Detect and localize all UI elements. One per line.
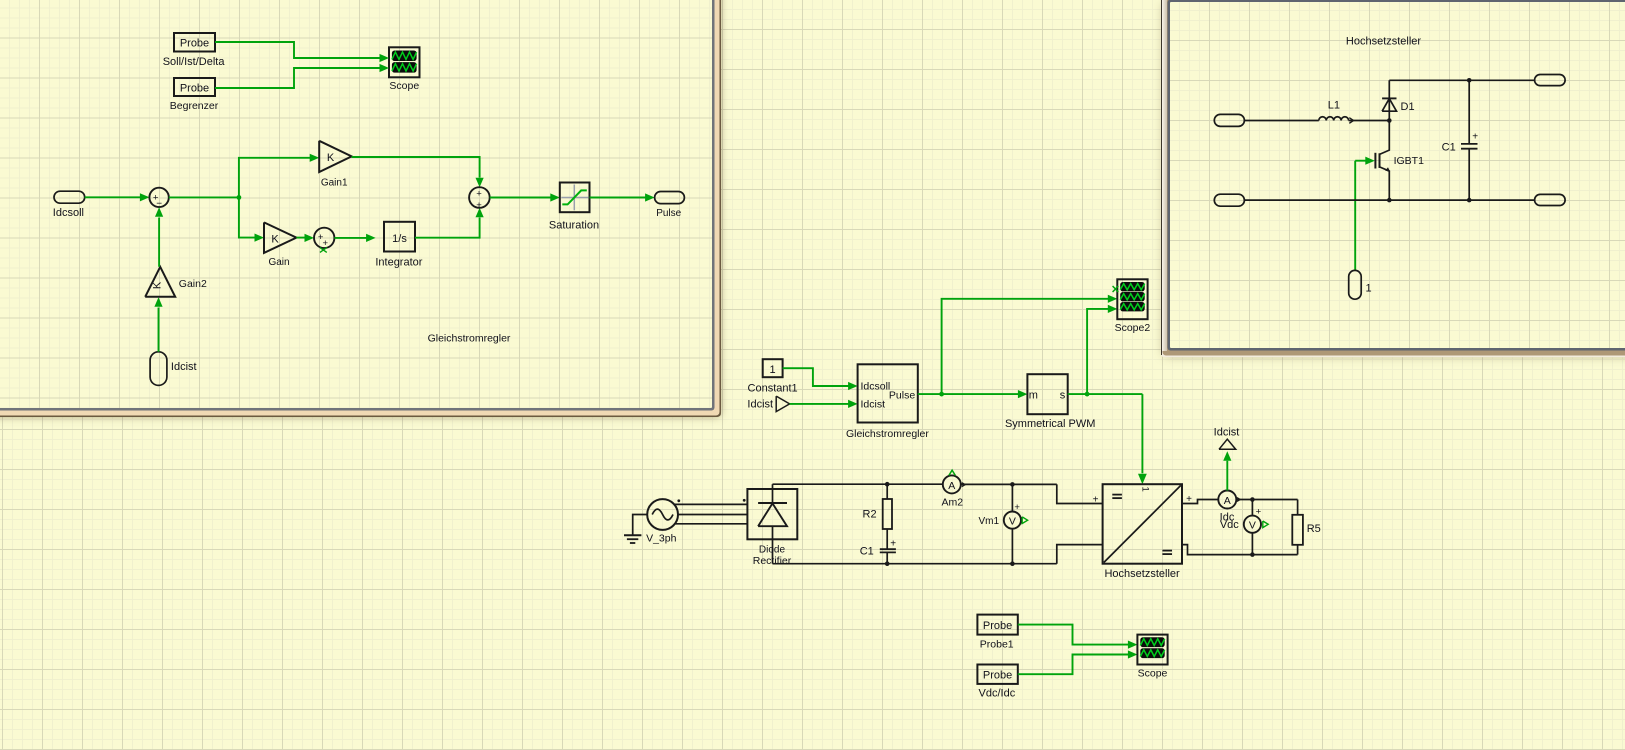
svg-text:+: +	[1472, 132, 1478, 143]
svg-text:Idcist: Idcist	[747, 399, 773, 411]
subsystem block Gleichstromregler	[858, 364, 918, 422]
node junction C1 top	[1467, 78, 1472, 83]
svg-text:D1: D1	[1401, 101, 1415, 113]
wire phase a	[674, 503, 747, 505]
svg-text:1: 1	[1139, 487, 1150, 492]
svg-text:Symmetrical PWM: Symmetrical PWM	[1005, 418, 1095, 430]
wire Probe1 to Scope (main)	[1018, 625, 1129, 645]
sum junction 1 (+/-)	[149, 188, 168, 207]
wire phase b	[678, 514, 747, 516]
svg-text:Rectifier: Rectifier	[753, 555, 792, 567]
wire dc bus top	[773, 483, 943, 485]
wire Saturation to Pulse	[590, 197, 647, 199]
port oval left-bottom	[1214, 194, 1244, 206]
svg-text:Hochsetzsteller: Hochsetzsteller	[1104, 568, 1180, 580]
capacitor C1	[1468, 80, 1470, 143]
phase marker dot rectifier	[743, 499, 746, 502]
wire Gain1 to sum3	[352, 157, 480, 178]
gain block Gain2	[145, 267, 175, 297]
node junction (L1/D1/IGBT)	[1387, 118, 1392, 123]
wire branch down to Gain	[239, 197, 255, 237]
svg-text:Scope: Scope	[389, 80, 419, 92]
svg-text:Idcsoll: Idcsoll	[53, 207, 84, 219]
wire Idcist to Gain2	[158, 308, 160, 352]
node dot pulse branch	[939, 392, 944, 397]
probe block Probe (Soll/Ist/Delta)	[174, 33, 215, 52]
svg-text:Scope2: Scope2	[1115, 322, 1151, 334]
wire branch up to Gain1	[239, 158, 311, 198]
wire L1 to node	[1349, 120, 1390, 122]
resistor R2	[886, 484, 888, 499]
svg-text:Hochsetzsteller: Hochsetzsteller	[1346, 36, 1422, 48]
svg-text:Am2: Am2	[942, 497, 964, 509]
probe block Probe1	[977, 615, 1017, 635]
svg-text:s: s	[1060, 390, 1066, 402]
scope block Scope (main)	[1137, 635, 1167, 665]
svg-text:Idcist: Idcist	[171, 361, 197, 373]
svg-text:Vdc: Vdc	[1220, 519, 1239, 531]
current direction arrow	[1349, 118, 1353, 124]
node junction C1 bottom	[1467, 198, 1472, 203]
output port Pulse	[655, 192, 685, 204]
wire bottom rail	[1244, 199, 1534, 201]
svg-text:1/s: 1/s	[392, 233, 407, 245]
svg-text:Probe: Probe	[983, 620, 1012, 632]
diode D1	[1382, 99, 1396, 112]
svg-text:+: +	[476, 200, 482, 211]
scope block Scope (window 1)	[389, 47, 420, 77]
rectifier block Diode Rectifier	[747, 489, 797, 539]
port oval left-top	[1214, 114, 1244, 126]
saturation block	[560, 183, 590, 213]
svg-text:Probe: Probe	[180, 38, 209, 50]
node branch dot	[237, 195, 242, 200]
phase marker dot source	[677, 499, 680, 502]
svg-text:R2: R2	[863, 509, 877, 521]
svg-text:V_3ph: V_3ph	[646, 533, 677, 545]
svg-text:1: 1	[1366, 283, 1372, 295]
wire block to Idc	[1182, 500, 1218, 504]
svg-text:C1: C1	[1442, 142, 1456, 154]
svg-text:Probe1: Probe1	[980, 638, 1014, 650]
svg-text:+: +	[323, 238, 329, 249]
svg-text:IGBT1: IGBT1	[1394, 155, 1425, 167]
svg-text:K: K	[152, 281, 164, 289]
svg-text:1: 1	[770, 364, 776, 376]
svg-text:Idcsoll: Idcsoll	[861, 380, 891, 392]
wire Constant1 to Idcsoll input	[783, 368, 849, 386]
svg-text:Idcist: Idcist	[861, 399, 886, 411]
svg-text:Probe: Probe	[983, 669, 1012, 681]
svg-text:+: +	[1256, 507, 1262, 518]
node dot Vdc top	[1250, 497, 1255, 502]
svg-text:Gleichstromregler: Gleichstromregler	[846, 428, 929, 440]
wire s output	[1068, 393, 1143, 395]
goto tag Idcist	[1219, 439, 1236, 449]
subsystem block Hochsetzsteller	[1103, 484, 1182, 564]
wire sum2 to Integrator	[334, 237, 366, 239]
resistor R5	[1297, 500, 1299, 515]
wire sum1 output	[169, 196, 239, 198]
svg-text:Probe: Probe	[180, 82, 209, 94]
voltmeter Vm1	[1011, 484, 1013, 511]
wire dc bus bottom	[773, 563, 1057, 565]
unconnected port marker x	[320, 248, 327, 253]
sum junction 3 (+/+)	[469, 187, 490, 208]
ground symbol	[624, 534, 641, 536]
wire node up through D1	[1388, 80, 1390, 120]
wire to Hochsetzsteller gate	[1141, 394, 1143, 473]
probe block Probe (Begrenzer)	[174, 78, 215, 96]
svg-text:L1: L1	[1328, 100, 1340, 112]
gate port 1 oval	[1349, 270, 1362, 299]
svg-text:Pulse: Pulse	[889, 389, 915, 401]
svg-text:+: +	[890, 539, 896, 550]
svg-text:Constant1: Constant1	[748, 383, 798, 395]
svg-text:Gain1: Gain1	[321, 178, 348, 189]
svg-text:Idcist: Idcist	[1214, 426, 1240, 438]
wire Gain2 to sum1	[158, 218, 160, 267]
svg-text:Gain: Gain	[268, 257, 289, 268]
wire sum3 to Saturation	[490, 197, 552, 199]
svg-text:V: V	[1009, 515, 1016, 527]
unconnected scope input x	[1113, 286, 1119, 292]
svg-text:+: +	[476, 188, 482, 199]
input port Idcsoll	[54, 191, 85, 203]
node junction emitter/rail	[1387, 198, 1392, 203]
node dot s branch	[1085, 392, 1090, 397]
svg-text:Vdc/Idc: Vdc/Idc	[979, 687, 1016, 699]
gain block Gain1	[319, 141, 351, 172]
node dot Vm1 top	[1010, 482, 1015, 487]
subsystem window Hochsetzsteller	[1170, 2, 1625, 348]
gain block Gain	[264, 222, 296, 253]
wire V_3ph to ground	[633, 515, 648, 536]
wire Probe2 to Scope (main)	[1018, 655, 1129, 675]
capacitor C1 (main)	[880, 548, 896, 550]
svg-text:Gleichstromregler: Gleichstromregler	[428, 333, 511, 345]
sum junction 2 (+/+)	[314, 228, 334, 248]
node dot Vm1 bottom	[1010, 561, 1015, 566]
igbt IGBT1	[1374, 153, 1376, 169]
svg-text:K: K	[271, 233, 279, 245]
ammeter Am2	[943, 475, 961, 493]
svg-text:C1: C1	[860, 546, 874, 558]
svg-text:Pulse: Pulse	[656, 208, 681, 219]
wire gate (green)	[1355, 160, 1366, 162]
svg-text:K: K	[327, 152, 335, 164]
wire left port to L1	[1244, 120, 1318, 122]
wire Idc to R5	[1236, 499, 1297, 501]
svg-text:Gain2: Gain2	[179, 278, 207, 290]
svg-text:Scope: Scope	[1138, 667, 1168, 679]
node dot Vdc bottom	[1250, 552, 1255, 557]
svg-text:Soll/Ist/Delta: Soll/Ist/Delta	[163, 56, 226, 68]
voltmeter Vdc	[1251, 500, 1253, 516]
constant block Constant1	[763, 359, 783, 377]
wire Idcsoll to sum	[85, 196, 142, 198]
wire phase c	[674, 523, 747, 525]
svg-text:+: +	[1093, 494, 1099, 505]
wire Integrator to sum3	[415, 218, 480, 238]
wire Probe1 to Scope	[215, 42, 381, 58]
probe block Probe (Vdc/Idc)	[977, 665, 1017, 684]
input port Idcist (window1)	[150, 352, 167, 386]
svg-text:m: m	[1029, 390, 1038, 402]
wire branch to Scope2 input3	[1087, 309, 1108, 394]
svg-text:A: A	[1224, 495, 1231, 507]
wire Idcist tag to block	[790, 403, 849, 405]
svg-text:Vm1: Vm1	[978, 516, 999, 527]
svg-text:R5: R5	[1307, 523, 1321, 535]
port oval right-top	[1535, 75, 1566, 86]
svg-text:A: A	[948, 480, 955, 492]
wire top rail	[1389, 79, 1534, 81]
integrator block 1/s	[384, 222, 415, 252]
wire bus2 bottom	[1182, 545, 1298, 555]
source V_3ph	[647, 499, 678, 530]
node dot R2 top	[885, 482, 890, 487]
wire Am2 to block	[961, 483, 1057, 485]
node dot C1 bottom (main)	[885, 561, 890, 566]
port oval right-bottom	[1535, 194, 1566, 205]
wire Probe2 to Scope	[215, 68, 381, 88]
wire Idc to goto tag	[1226, 461, 1228, 491]
inductor L1	[1319, 117, 1349, 121]
svg-text:V: V	[1249, 519, 1256, 531]
window 2 left dark edge	[1162, 0, 1167, 351]
svg-text:Begrenzer: Begrenzer	[170, 100, 219, 112]
svg-text:Integrator: Integrator	[375, 257, 422, 269]
svg-text:+: +	[1014, 502, 1020, 513]
wire branch to Scope2 input2	[942, 299, 1109, 394]
wire Pulse to PWM	[918, 393, 1019, 395]
svg-text:Saturation: Saturation	[549, 220, 599, 232]
ammeter Idc	[1218, 491, 1236, 509]
subsystem window Gleichstromregler	[0, 0, 712, 408]
pwm block Symmetrical PWM	[1027, 374, 1067, 414]
wire Gain to sum2	[296, 237, 305, 239]
scope block Scope2	[1117, 279, 1147, 319]
